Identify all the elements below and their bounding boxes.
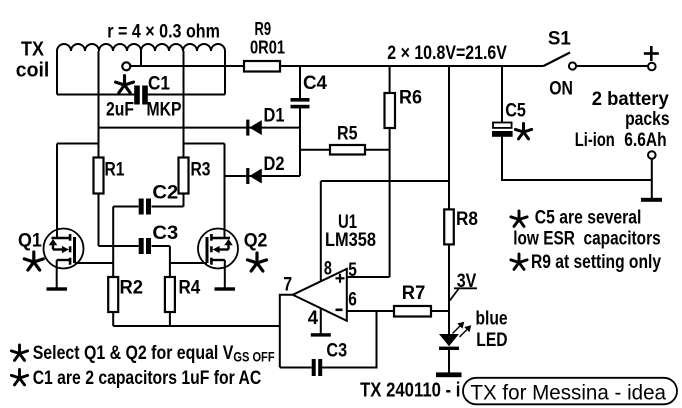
svg-text:D2: D2 [264,154,285,175]
wire: Q2 source to ground [224,260,226,288]
svg-text:TX for Messina - idea: TX for Messina - idea [470,381,666,405]
svg-text:D1: D1 [264,106,285,127]
wire: D1 line [99,127,301,129]
wire: C3 right link to R4 [152,245,170,247]
svg-text:2uF: 2uF [106,100,134,121]
ground: battery [641,198,662,202]
svg-text:C1 are 2 capacitors 1uF for AC: C1 are 2 capacitors 1uF for AC [33,367,262,389]
wire: C3 feedback bottom left [280,367,312,369]
wire: LED cathode to ground [448,350,450,373]
svg-text:LED: LED [476,330,507,351]
svg-text:R1: R1 [105,160,125,181]
diode D1 [248,120,262,136]
svg-text:0R01: 0R01 [250,38,285,58]
TX coil L1: scalloped winding top [57,44,225,51]
svg-text:6: 6 [348,290,357,311]
svg-text:low ESR capacitors: low ESR capacitors [513,228,661,249]
svg-text:4: 4 [308,308,319,329]
diode D2 [248,168,262,184]
resistor R8 [444,209,454,244]
capacitor C5 plates (top outline, bottom solid) [493,123,512,128]
asterisk note Q1Q2 [11,345,27,360]
wire: C5 lead from rail [501,66,503,123]
capacitor C3 plates (gate coupling) [139,238,151,254]
ground: Q1 source [47,287,68,290]
svg-text:R5: R5 [337,124,358,145]
wire: pin 8 supply horizontal [321,180,449,182]
ground: Q2 source [215,287,236,290]
svg-text:GS OFF: GS OFF [233,349,275,365]
capacitor C1 plates [135,86,148,104]
svg-text:7: 7 [283,275,292,296]
svg-text:R6: R6 [399,88,422,109]
svg-text:TX 240110 - i: TX 240110 - i [360,380,460,402]
svg-text:blue: blue [476,308,508,329]
svg-text:R7: R7 [402,283,426,304]
svg-text:coil: coil [16,60,50,82]
coil winding divider 1 / wire to R1 [98,51,100,246]
coil bottom edge right of C1 [146,94,225,96]
svg-text:MKP: MKP [147,100,182,121]
svg-text:Q2: Q2 [244,230,268,252]
asterisk note C5 [511,211,527,226]
svg-text:LM358: LM358 [325,230,376,251]
coil winding divider 3 / wire to R3 [183,51,185,207]
title oval: TX for Messina - idea [463,378,677,405]
svg-text:R4: R4 [179,278,201,299]
wire: C3 feedback bottom right and up to pin 6 [322,311,377,368]
asterisk note C1 [11,370,27,385]
ground: LED [436,372,462,377]
battery plus sign [644,46,659,61]
svg-text:C5: C5 [505,100,526,121]
svg-text:R2: R2 [120,278,144,299]
svg-text:C2: C2 [152,183,178,204]
svg-text:C1: C1 [148,74,170,95]
op-amp U1 triangle [293,269,347,321]
svg-text:C4: C4 [303,73,327,94]
LED light arrows [453,323,471,337]
wire: C4 leads and rectifier node vertical [299,66,301,99]
switch S1 blade [544,53,571,67]
wire: C2 right link to R3 [152,206,184,208]
capacitor C3 (op-amp feedback) plates [312,359,323,376]
svg-text:Li-ion: Li-ion [575,129,615,151]
wire: R6 vertical down to op-amp pin 5 [389,66,391,277]
svg-text:6.6Ah: 6.6Ah [624,129,666,151]
ground: op-amp pin 4 [311,333,331,336]
wire: supply rail from coil tap through R9 to S1 [131,65,544,67]
wire: C3 left link from R1 [99,245,139,247]
resistor R6 [385,93,396,128]
wire: battery minus to ground [651,159,653,199]
svg-text:TX: TX [21,39,45,61]
svg-text:C3: C3 [152,223,178,244]
wire: R8 feed vertical [448,66,450,209]
coil right edge [224,51,226,95]
wire: C2 left link from R2 vertical [113,206,138,208]
svg-text:ON: ON [549,78,573,100]
svg-text:3V: 3V [457,271,477,292]
asterisk Q2 [248,253,267,271]
node: battery plus terminal circle [648,63,656,71]
resistor R2 [108,277,118,312]
svg-text:2 battery: 2 battery [592,88,669,110]
wire: R5 line [300,149,390,151]
capacitor C4 plates [291,98,310,108]
wire: pin 4 to ground [320,308,322,333]
transistor Q1 [44,229,84,269]
svg-text:Q1: Q1 [18,230,42,252]
svg-text:8: 8 [324,259,332,280]
capacitor C2 plates [139,199,151,215]
asterisk note R9 [511,254,527,269]
node: battery minus terminal circle [648,151,656,159]
svg-text:r = 4 × 0.3 ohm: r = 4 × 0.3 ohm [107,21,220,43]
node: coil tap circle [122,62,130,70]
asterisk Q1 [24,252,43,270]
coil left edge [56,51,58,95]
switch S1 right contact circle [569,62,576,69]
resistor R1 [94,158,104,194]
transistor Q2 [198,229,238,269]
resistor R4 [165,277,175,312]
wire: Q1 source to ground [56,260,58,288]
svg-text:R8: R8 [456,209,478,230]
wire: R8 bottom to LED [448,244,450,335]
svg-text:R9: R9 [255,19,272,39]
LED D3 triangle [439,334,459,346]
svg-text:2 × 10.8V=21.6V: 2 × 10.8V=21.6V [387,42,507,64]
resistor R3 [179,158,189,194]
resistor R5 [330,145,365,155]
wire: pin 8 drop [320,181,322,282]
svg-text:R9 at setting only: R9 at setting only [531,252,661,273]
resistor R7 [394,306,431,317]
wire: D2 line [225,175,301,177]
op-amp minus input sign [336,308,343,311]
3V test point tick [449,289,459,302]
wire: pin 7 output to feedback node [280,295,293,368]
wire: R2 vertical [112,207,114,327]
svg-text:5: 5 [348,260,357,281]
asterisk C1 [116,76,134,93]
wire: sources bottom rail to op-amp output [113,325,280,327]
coil winding divider 2 to tap wire [140,51,142,66]
coil bottom edge left of C1 [57,94,136,96]
svg-text:S1: S1 [548,28,571,50]
wire: op-amp pin 5 horizontal [347,276,390,278]
asterisk C5 [515,124,531,139]
svg-text:C3: C3 [326,341,347,362]
wire: switch to battery plus [576,65,648,67]
wire: C5 bottom return [502,137,652,180]
wire: pin 6 line to R7 and LED node [347,310,449,312]
op-amp plus input sign [336,274,345,283]
svg-text:Select Q1 & Q2 for equal V: Select Q1 & Q2 for equal V [33,342,234,364]
LED cathode bar [439,347,459,350]
svg-text:C5 are several: C5 are several [535,208,642,229]
wire: Q1 drain branch at y=143.5 [57,143,99,145]
wire: R4 vertical [169,246,171,326]
wire: Q2 drain branch at y=143.5 [184,143,225,145]
svg-text:R3: R3 [191,160,211,181]
svg-text:packs: packs [625,108,670,130]
resistor R9 [244,61,280,72]
